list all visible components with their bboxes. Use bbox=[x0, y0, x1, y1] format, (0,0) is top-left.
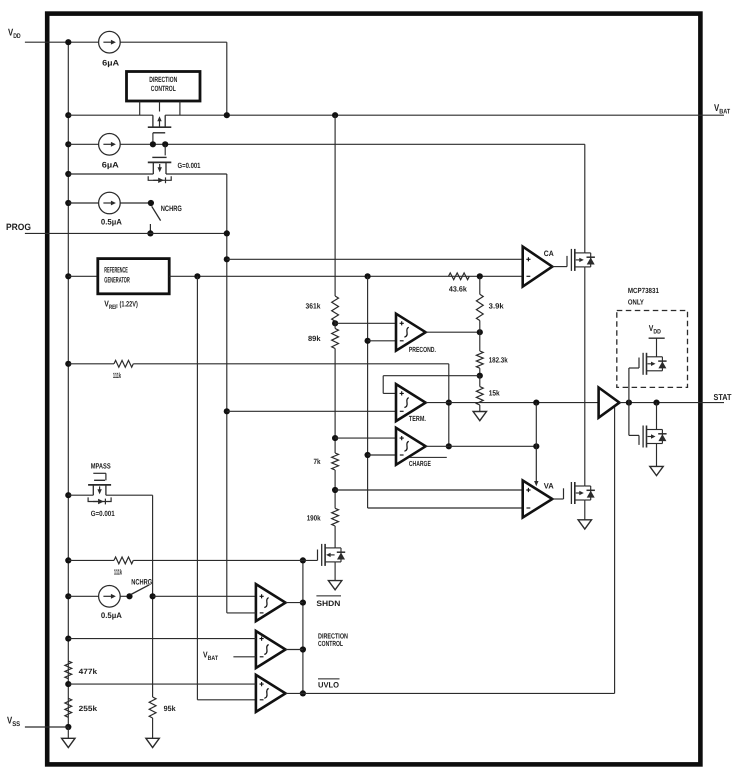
svg-text:361k: 361k bbox=[306, 302, 322, 311]
svg-text:95k: 95k bbox=[164, 704, 177, 713]
wire MPASS row to NCHRG column bbox=[68, 494, 93, 496]
svg-text:7k: 7k bbox=[314, 457, 322, 466]
transistor M7 NMOS STAT low-side bbox=[628, 403, 630, 436]
wire UVLO+ row from 477k/255k junction bbox=[68, 683, 256, 685]
wire STAT node row (TERM out to buffer) bbox=[449, 402, 599, 404]
resistor R 111k (to TERM/CHARGE output node) bbox=[114, 360, 133, 367]
ground below 15k bbox=[473, 412, 486, 421]
svg-text:DIRECTION: DIRECTION bbox=[149, 75, 177, 84]
svg-text:CONTROL: CONTROL bbox=[151, 84, 176, 93]
amplifier VA bbox=[523, 481, 553, 518]
wire 6uA row to CA/VA FET drain column bbox=[68, 143, 98, 145]
svg-text:43.6k: 43.6k bbox=[449, 284, 468, 293]
svg-text:STAT: STAT bbox=[714, 392, 733, 402]
wire PROG row bbox=[25, 232, 227, 234]
svg-text:477k: 477k bbox=[79, 667, 98, 676]
svg-text:15k: 15k bbox=[489, 389, 501, 398]
wire to CHARGE+ input bbox=[335, 437, 396, 439]
svg-text:G=0.001: G=0.001 bbox=[91, 509, 116, 518]
wire VDD pin to bus bbox=[25, 41, 99, 43]
resistor R 89k bbox=[332, 329, 339, 349]
current source I1 6uA bbox=[99, 31, 121, 53]
wire CHARGE enable arrow into VA bbox=[535, 403, 537, 447]
svg-text:UVLO: UVLO bbox=[318, 680, 339, 689]
svg-text:GENERATOR: GENERATOR bbox=[104, 276, 130, 285]
svg-text:MPASS: MPASS bbox=[91, 462, 111, 471]
wire DC+ row from divider bbox=[68, 638, 256, 640]
wire UVLO output to STAT buffer enable bbox=[303, 692, 615, 694]
resistor R 111k (lower, to gate node) bbox=[114, 557, 133, 564]
comparator PRECOND. bbox=[396, 314, 426, 351]
wire TERM+ feedback from 182.3k/15k junction bbox=[383, 375, 480, 377]
svg-text:ONLY: ONLY bbox=[628, 297, 644, 306]
wire 361k/89k junction to PRECOND+ bbox=[334, 321, 336, 328]
svg-text:VA: VA bbox=[544, 482, 554, 491]
svg-text:6µA: 6µA bbox=[102, 59, 119, 68]
svg-text:111k: 111k bbox=[113, 371, 122, 380]
svg-text:REFERENCE: REFERENCE bbox=[104, 266, 128, 275]
resistor R 190k bbox=[332, 508, 339, 526]
wire NMOS drain to STAT node bbox=[656, 403, 658, 430]
resistor R 43.6k bbox=[449, 273, 470, 280]
wire VDD supply bar to PMOS bbox=[649, 337, 665, 339]
wire STAT output row bbox=[619, 402, 724, 404]
ground below M5 bbox=[334, 562, 336, 581]
transistor M3 at CA output (current sense FET) bbox=[552, 266, 567, 268]
resistor R 95k bbox=[149, 697, 156, 718]
transistor M5 pull-down FET near SHDN bbox=[317, 550, 319, 561]
block DIRECTION CONTROL (top) bbox=[127, 72, 201, 102]
transistor M4 at VA output bbox=[552, 498, 563, 500]
comparator SHDN bbox=[256, 584, 286, 621]
ground at VSS rail bottom bbox=[67, 727, 69, 738]
resistor R 477k bbox=[65, 661, 72, 679]
transistor M6 PMOS STAT high-side bbox=[628, 368, 630, 403]
wire stubs from DIRECTION CONTROL box to pass transistor bbox=[139, 101, 141, 115]
svg-text:6µA: 6µA bbox=[102, 161, 119, 170]
wire NCHRG row to SHDN+ input bbox=[153, 595, 256, 597]
wire VREF output row bbox=[169, 275, 523, 277]
current source I4 0.5uA bbox=[99, 586, 121, 608]
resistor R 15k bbox=[476, 387, 483, 405]
comparator TERM. bbox=[396, 384, 426, 421]
comparator CHARGE bbox=[396, 428, 426, 465]
wire FET bus between CA and VA FETs bbox=[584, 267, 586, 486]
svg-text:TERM.: TERM. bbox=[409, 414, 426, 423]
wire VREF column down to UVLO- input bbox=[196, 276, 198, 700]
wire CHARGE output row to STAT buffer column bbox=[449, 445, 537, 447]
wire PRECOND output to 3.9k/182.3k junction bbox=[426, 331, 480, 333]
svg-text:CHARGE: CHARGE bbox=[409, 459, 431, 468]
transistor M1 reverse-blocking pass FET (under DIRECTION CONTROL) bbox=[152, 115, 154, 127]
node VDD bus (left vertical rail) bbox=[67, 42, 69, 727]
comparator UVLO bbox=[256, 675, 286, 712]
wire TERM- row from PROG column bbox=[224, 408, 230, 414]
svg-text:G=0.001: G=0.001 bbox=[178, 161, 202, 170]
wire I1 output to PROG column top bbox=[120, 41, 227, 43]
svg-text:PRECOND.: PRECOND. bbox=[409, 345, 436, 354]
svg-text:CONTROL: CONTROL bbox=[318, 639, 343, 648]
amplifier CA bbox=[523, 247, 553, 287]
resistor R 182.3k bbox=[476, 351, 483, 368]
current source I2 6uA bbox=[99, 134, 121, 156]
wire PROG column to CA+ row bbox=[224, 256, 230, 262]
wire VSS pin bbox=[25, 726, 68, 728]
wire SHDN/DC/UVLO output column bbox=[302, 560, 304, 693]
wire TERM/CHARGE output column bbox=[448, 364, 450, 447]
wire G row (sense output) bbox=[68, 173, 153, 175]
svg-text:PROG: PROG bbox=[6, 222, 31, 232]
ground below 95k bbox=[152, 718, 154, 738]
resistor R 3.9k bbox=[476, 294, 483, 320]
wire VREF branch column (PRECOND-/CHARGE-/VA-) bbox=[367, 276, 369, 508]
wire PROG column corner into SHDN- bbox=[227, 612, 256, 614]
ground below M7 bbox=[656, 444, 658, 467]
ground below M4 bbox=[584, 500, 586, 520]
svg-text:MCP73831: MCP73831 bbox=[628, 286, 659, 295]
resistor R 7k bbox=[332, 453, 339, 470]
resistor R 361k bbox=[334, 115, 336, 296]
svg-text:182.3k: 182.3k bbox=[489, 356, 509, 365]
block REFERENCE GENERATOR bbox=[68, 275, 98, 277]
block MCP73831 ONLY (dashed) bbox=[617, 311, 688, 388]
buffer U1 STAT driver bbox=[599, 388, 620, 418]
transistor M2 pass FET G=0.001 bbox=[164, 144, 166, 155]
wire VBAT row bbox=[68, 114, 153, 116]
svg-text:0.5µA: 0.5µA bbox=[101, 611, 122, 620]
svg-text:0.5µA: 0.5µA bbox=[101, 218, 122, 227]
wire to VA+ input bbox=[335, 489, 523, 491]
current source I3 0.5uA bbox=[99, 192, 121, 214]
svg-text:190k: 190k bbox=[307, 514, 322, 523]
svg-text:SHDN: SHDN bbox=[316, 599, 340, 608]
svg-text:CA: CA bbox=[544, 249, 554, 258]
svg-text:111k: 111k bbox=[114, 568, 123, 577]
comparator DIRECTION CONTROL (lower) bbox=[256, 631, 286, 668]
svg-text:255k: 255k bbox=[79, 704, 98, 713]
svg-text:3.9k: 3.9k bbox=[489, 302, 505, 311]
svg-text:NCHRG: NCHRG bbox=[161, 204, 182, 213]
resistor R 255k bbox=[65, 698, 72, 717]
svg-text:89k: 89k bbox=[308, 334, 321, 343]
